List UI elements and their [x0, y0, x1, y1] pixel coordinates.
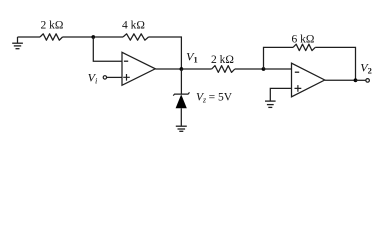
wire node D to output terminal: [356, 79, 366, 81]
node C (junction dot): [262, 67, 266, 71]
svg-text:Vi: Vi: [88, 70, 98, 85]
node D / net V2 (junction dot): [354, 78, 358, 82]
wire U2 output to node D: [325, 79, 356, 81]
U2 plus pin label: [295, 85, 302, 92]
resistor R3: [212, 66, 235, 73]
output terminal V2 (open circle): [366, 79, 370, 83]
wire R2 to node B (corner down): [149, 37, 182, 69]
input terminal Vi (open circle): [103, 76, 106, 79]
wire zener anode to ground G2: [180, 108, 182, 126]
wire Vi to U1 non-inverting input: [107, 76, 122, 78]
wire R1 to node A: [63, 36, 94, 38]
wire U1 output to node B: [155, 68, 181, 70]
U2 minus pin label: [295, 71, 299, 73]
resistor R1: [40, 34, 63, 40]
zener diode D1 cathode bar: [173, 92, 189, 95]
wire G1 to R1: [18, 36, 41, 38]
wire node A down to U1 inverting input: [93, 37, 122, 61]
ground G1 (input reference, top-left): [12, 37, 23, 49]
wire R3 to node C: [235, 68, 264, 70]
svg-text:4 kΩ: 4 kΩ: [122, 19, 145, 31]
wire node A to R2: [93, 36, 123, 38]
wire node B down to zener D1: [180, 69, 182, 94]
ground G2 (under zener): [176, 126, 187, 131]
U1 minus pin label: [124, 60, 128, 62]
svg-text:V1: V1: [186, 49, 198, 64]
op-amp U1: [122, 52, 155, 85]
zener diode D1 anode triangle: [176, 94, 187, 108]
wire node B to R3: [181, 68, 211, 70]
op-amp U2: [292, 63, 325, 97]
resistor R4 (feedback): [293, 44, 315, 50]
node A (junction dot): [91, 35, 95, 39]
svg-text:6 kΩ: 6 kΩ: [292, 33, 315, 45]
resistor R2 (feedback): [123, 34, 149, 40]
wire R4 to node D (corner down): [315, 47, 355, 80]
svg-text:V2: V2: [360, 60, 372, 75]
node B / net V1 (junction dot): [180, 67, 184, 71]
wire U2 non-inverting input to ground G3: [270, 88, 291, 100]
svg-text:2 kΩ: 2 kΩ: [41, 20, 64, 32]
ground G3 (under U2): [265, 101, 276, 107]
U1 plus pin label: [123, 74, 130, 81]
wire node C to U2 inverting input: [264, 68, 292, 70]
wire node C up to R4: [264, 47, 294, 69]
svg-text:Vz= 5V: Vz= 5V: [196, 92, 233, 105]
svg-text:2 kΩ: 2 kΩ: [211, 54, 234, 66]
